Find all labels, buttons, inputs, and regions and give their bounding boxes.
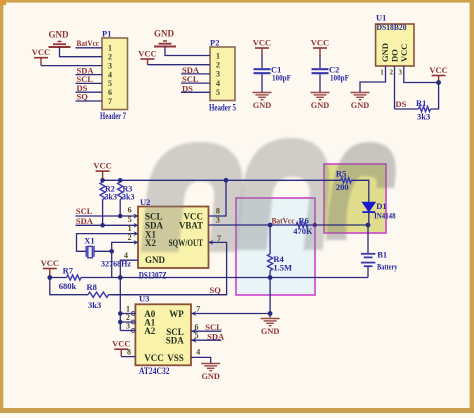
svg-text:R8: R8 xyxy=(87,282,97,292)
svg-text:VCC: VCC xyxy=(138,49,156,59)
svg-text:5: 5 xyxy=(128,215,132,224)
svg-text:VCC: VCC xyxy=(429,65,447,75)
net label SCL (U3) + wire pin6 xyxy=(191,322,222,332)
net label SQ + wire P1 pin7 xyxy=(76,92,103,102)
wire R1 to VCC node xyxy=(431,83,439,110)
wire SDA to U2 pin5 xyxy=(76,224,139,226)
wire P1 pin3 to VCC xyxy=(41,65,102,67)
wire D1 to battery node xyxy=(368,212,370,225)
junction node BatVcc/R4 xyxy=(268,223,273,228)
battery B1 xyxy=(361,250,398,272)
resistor R4 1.5M xyxy=(268,254,293,272)
svg-text:7: 7 xyxy=(108,97,112,106)
svg-text:BatVcc: BatVcc xyxy=(272,215,295,225)
net label SCL + wire P2 pin4 xyxy=(181,74,210,84)
svg-text:DS18B20: DS18B20 xyxy=(377,22,407,32)
svg-text:R7: R7 xyxy=(63,266,74,276)
wire VCC rail xyxy=(103,179,341,181)
U2 pin numbers xyxy=(124,206,221,260)
svg-text:680k: 680k xyxy=(59,281,77,291)
svg-text:SDA: SDA xyxy=(76,216,94,226)
wire R5 to D1 xyxy=(351,180,369,202)
resistor R8 3k3 xyxy=(87,282,109,310)
wire C1 to GND xyxy=(261,74,263,92)
svg-text:2: 2 xyxy=(216,61,220,70)
wire U1 pin3 to VCC node xyxy=(404,66,439,83)
wire U3 pin1 A0 xyxy=(120,313,135,315)
svg-text:3k3: 3k3 xyxy=(417,112,430,122)
svg-text:IN4148: IN4148 xyxy=(374,210,396,220)
svg-text:VCC: VCC xyxy=(93,161,111,171)
svg-text:4: 4 xyxy=(108,70,112,79)
wire R8 to SQ xyxy=(109,294,227,296)
svg-text:VCC: VCC xyxy=(311,38,329,48)
svg-text:GND: GND xyxy=(145,255,166,265)
wire U2 pin8 to VCC rail xyxy=(209,180,227,216)
wire U3 pin7 WP to GND xyxy=(191,313,270,315)
resistor R3 3k3 xyxy=(118,182,135,201)
wire battery bottom to gnd rail xyxy=(367,266,369,277)
svg-text:2: 2 xyxy=(108,53,112,62)
svg-text:WP: WP xyxy=(169,309,184,319)
wire U2 pin4 GND down xyxy=(120,260,138,277)
svg-text:DS: DS xyxy=(396,99,407,109)
svg-text:6: 6 xyxy=(128,206,132,215)
crystal X1 32768Hz xyxy=(84,236,131,269)
junction node VCC/R7/R8 xyxy=(47,275,52,280)
power VCC (U3 pin8) xyxy=(112,339,130,357)
svg-text:X1: X1 xyxy=(84,236,94,246)
junction node A0 xyxy=(118,311,123,316)
svg-text:8: 8 xyxy=(216,206,220,215)
wire U2 pin1 X1 to crystal xyxy=(77,234,139,252)
svg-text:1: 1 xyxy=(128,224,132,233)
svg-text:R5: R5 xyxy=(336,169,346,179)
svg-text:200: 200 xyxy=(336,182,349,192)
svg-text:2: 2 xyxy=(128,233,132,242)
highlight box (blue) around BatVcc/R4/R6 xyxy=(236,198,315,295)
svg-text:B1: B1 xyxy=(377,250,387,260)
svg-text:R1: R1 xyxy=(416,98,426,108)
resistor R5 200 xyxy=(336,169,351,192)
junction node crystal/X2 xyxy=(109,249,114,254)
wire P2 pin2 to VCC xyxy=(148,64,211,66)
svg-text:3: 3 xyxy=(108,61,112,70)
svg-text:SCL: SCL xyxy=(76,206,93,216)
net label DS + wire P2 pin5 xyxy=(181,83,210,93)
IC U1 DS18B20 xyxy=(376,13,414,67)
wire R3 to SCL line xyxy=(119,199,121,216)
wire VCC down to R8 xyxy=(50,278,88,295)
svg-text:5: 5 xyxy=(108,79,112,88)
junction node rail/U2 pin8 xyxy=(224,178,229,183)
power VCC (U1) xyxy=(429,65,447,83)
svg-text:3k3: 3k3 xyxy=(122,192,134,201)
power VCC (P2 pin2) xyxy=(138,49,156,65)
svg-text:GND: GND xyxy=(311,101,329,110)
svg-text:BatVcc: BatVcc xyxy=(77,38,100,48)
svg-text:1.5M: 1.5M xyxy=(273,262,292,272)
svg-text:100pF: 100pF xyxy=(330,72,349,82)
resistor R6 470K xyxy=(293,215,313,236)
net label DS + wire P1 pin6 xyxy=(76,83,103,93)
resistor R2 3k3 xyxy=(100,182,117,201)
junction node rail/R2 xyxy=(100,178,105,183)
svg-text:4: 4 xyxy=(216,79,220,88)
junction node rail/R3 xyxy=(118,178,123,183)
svg-text:470K: 470K xyxy=(293,226,313,236)
ground GND (C1) xyxy=(253,93,272,111)
svg-text:VCC: VCC xyxy=(32,47,50,57)
IC U3 AT24C32 xyxy=(135,294,191,377)
wire U3 pin4 VSS to GND xyxy=(191,357,211,363)
U2 pin arrows xyxy=(134,214,213,244)
resistor R7 680k xyxy=(59,266,81,292)
junction node WP/GND xyxy=(268,311,273,316)
svg-text:2: 2 xyxy=(390,69,394,77)
ground GND (P2 pin1) xyxy=(154,29,176,47)
svg-text:R6: R6 xyxy=(299,215,309,225)
svg-text:P2: P2 xyxy=(210,38,219,48)
svg-text:VBAT: VBAT xyxy=(179,221,203,231)
wire VCC to C2 xyxy=(319,55,321,68)
power VCC (R7) xyxy=(41,258,59,278)
wire R4 bottom to gnd rail xyxy=(269,271,271,278)
wire VCC to C1 xyxy=(261,55,263,68)
svg-text:100pF: 100pF xyxy=(272,72,291,82)
wire U2 pin3 VBAT to battery node (BatVcc net) xyxy=(209,224,369,226)
wire C2 to GND xyxy=(319,74,321,92)
svg-text:5: 5 xyxy=(216,88,220,97)
svg-text:1: 1 xyxy=(380,69,384,77)
junction node U1 VCC xyxy=(436,80,441,85)
IC U2 body xyxy=(138,207,209,269)
power VCC (C2) xyxy=(311,38,329,56)
wire R2 to SDA line xyxy=(102,199,104,225)
ground GND (WP) xyxy=(261,319,280,337)
power VCC (C1) xyxy=(253,38,271,56)
svg-text:VCC: VCC xyxy=(112,339,130,349)
U3 pin numbers xyxy=(126,305,200,357)
header P2 xyxy=(209,38,236,113)
svg-text:1: 1 xyxy=(108,44,112,53)
wire U1 pin1 to GND xyxy=(360,66,386,93)
wire U3 pin2 A1 xyxy=(120,321,135,323)
svg-text:VCC: VCC xyxy=(144,353,164,363)
svg-text:P1: P1 xyxy=(102,29,111,39)
svg-text:X2: X2 xyxy=(145,238,156,248)
wire VCC to R7 xyxy=(50,277,67,279)
wire battery top xyxy=(367,225,369,254)
junction node SCL/R3 xyxy=(118,214,123,219)
svg-text:DO: DO xyxy=(390,49,400,62)
svg-text:SDA: SDA xyxy=(166,336,185,346)
svg-text:GND: GND xyxy=(49,29,70,39)
capacitor C2 100pF xyxy=(312,65,350,83)
svg-text:3: 3 xyxy=(216,70,220,79)
wire P1 pin2 to GND xyxy=(60,47,103,57)
svg-text:U3: U3 xyxy=(139,294,149,304)
svg-text:GND: GND xyxy=(351,101,369,110)
svg-text:6: 6 xyxy=(108,88,112,97)
header P1 xyxy=(100,29,128,122)
diode D1 IN4148 xyxy=(362,201,395,220)
wire U3 pin8 VCC xyxy=(121,356,135,358)
svg-text:GND: GND xyxy=(261,327,279,336)
wire crystal node down to GND rail xyxy=(111,251,113,277)
junction node BatVcc at box edge xyxy=(313,223,317,227)
wire U2 pin7 SQW/OUT to SQ line xyxy=(111,242,226,294)
wire GND vertical (right) xyxy=(269,278,271,318)
svg-text:DS1307Z: DS1307Z xyxy=(139,270,167,280)
junction node rail/U2gnd xyxy=(118,275,123,280)
ground GND (VSS) xyxy=(201,364,220,382)
svg-text:4: 4 xyxy=(196,348,200,357)
wire DO to R1 xyxy=(395,108,419,110)
wire P1 pin1 (BatVcc) xyxy=(76,47,103,49)
IC U2 DS1307Z xyxy=(139,197,203,280)
net label SDA + wire P2 pin3 xyxy=(181,65,210,75)
ground GND (C2) xyxy=(311,93,330,111)
svg-text:Header 7: Header 7 xyxy=(100,111,126,121)
wire U2 pin2 X2 to crystal xyxy=(94,242,138,251)
svg-text:Battery: Battery xyxy=(377,261,398,271)
svg-text:AT24C32: AT24C32 xyxy=(139,366,170,376)
net label SDA + wire P1 pin4 xyxy=(76,66,103,76)
svg-text:3k3: 3k3 xyxy=(105,192,117,201)
svg-text:VSS: VSS xyxy=(167,353,184,363)
svg-text:3: 3 xyxy=(399,69,403,77)
resistor R1 3k3 xyxy=(416,98,431,122)
svg-text:3k3: 3k3 xyxy=(88,300,101,310)
svg-text:U2: U2 xyxy=(140,197,150,207)
wire R4 top xyxy=(269,225,271,254)
svg-text:VCC: VCC xyxy=(253,38,271,48)
svg-text:Header 5: Header 5 xyxy=(209,103,236,113)
wire SCL to U2 pin6 xyxy=(76,215,139,217)
svg-text:GND: GND xyxy=(154,29,175,39)
ground GND (U1) xyxy=(351,93,370,111)
highlight box (yellow-green) around R5/D1 xyxy=(324,164,386,233)
wire P2 pin1 to GND xyxy=(165,47,210,56)
power VCC (P1 pin3) xyxy=(32,47,50,65)
svg-text:SQW/OUT: SQW/OUT xyxy=(169,238,204,248)
junction node BatVcc/D1/B1 xyxy=(366,223,371,228)
capacitor C1 100pF xyxy=(254,65,292,83)
wire U3 pin3 A2 xyxy=(120,330,135,332)
svg-text:7: 7 xyxy=(196,305,200,314)
svg-text:VCC: VCC xyxy=(399,44,409,62)
svg-text:VCC: VCC xyxy=(41,258,59,268)
svg-text:7: 7 xyxy=(217,234,221,243)
power VCC (rail) xyxy=(93,161,111,181)
ground GND (P1 pin2) xyxy=(49,29,71,47)
P2 pin numbers 1-5 xyxy=(216,51,220,97)
svg-text:GND: GND xyxy=(253,101,271,110)
svg-text:GND: GND xyxy=(201,372,219,381)
U1 pin numbers 1 2 3 xyxy=(380,69,402,77)
svg-text:SQ: SQ xyxy=(210,285,222,295)
svg-text:1: 1 xyxy=(216,51,220,60)
net label SCL + wire P1 pin5 xyxy=(76,74,103,84)
svg-text:3: 3 xyxy=(126,322,130,331)
svg-text:3: 3 xyxy=(216,216,220,225)
P1 pin numbers 1-7 xyxy=(108,44,112,106)
svg-text:SQ: SQ xyxy=(77,92,89,102)
U3 pin end circles xyxy=(131,312,196,342)
junction node rail/R4 xyxy=(268,275,273,280)
border frame xyxy=(0,0,474,3)
junction node A1 xyxy=(118,320,123,325)
svg-text:A2: A2 xyxy=(144,326,155,336)
svg-text:GND: GND xyxy=(380,43,390,62)
net label SDA (U3) + wire pin5 xyxy=(191,332,225,342)
wire A-pins vertical xyxy=(119,278,121,331)
junction node SDA/R2 xyxy=(100,223,105,228)
wire R7 to gnd rail xyxy=(81,277,368,279)
wire U1 pin2 DO down xyxy=(394,66,396,109)
